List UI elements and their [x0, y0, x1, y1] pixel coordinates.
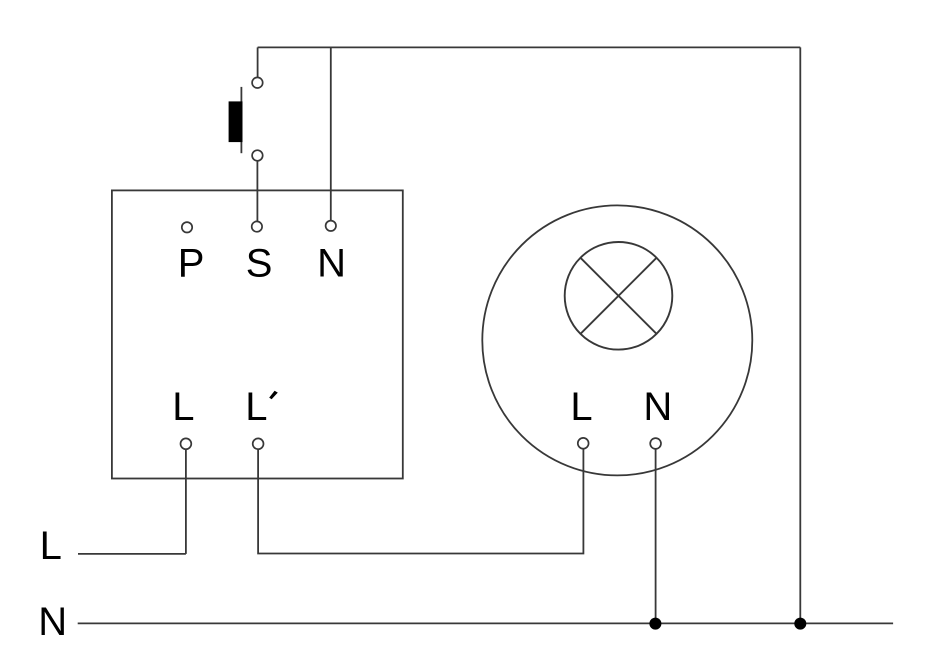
lamp symbol circle [565, 242, 673, 350]
svg-text:L: L [245, 385, 267, 429]
lamp terminal circles L and N [578, 438, 661, 449]
wire: lamp terminal N down to N rail [655, 449, 657, 624]
lamp symbol cross line 2 [581, 258, 657, 334]
wire: terminal L' of control unit to lamp terminal L [258, 449, 583, 554]
wire: top bus down to terminal N [330, 47, 332, 220]
svg-text:N: N [317, 242, 346, 286]
push-button S contact circles [252, 77, 263, 160]
svg-text:S: S [246, 242, 273, 286]
svg-text:L: L [40, 524, 62, 568]
svg-text:N: N [643, 385, 672, 429]
svg-text:L: L [570, 385, 592, 429]
wire: terminal L of control unit down to L rail [185, 449, 187, 554]
terminal circles P S N of control unit [182, 221, 336, 233]
wire: L supply rail [78, 553, 186, 555]
wire: N supply rail [78, 622, 893, 624]
terminal circles L and L' of control unit [181, 438, 264, 449]
wire: stub from top bus down to push-button upper contact [257, 47, 259, 77]
control unit box [112, 190, 403, 478]
svg-text:P: P [178, 242, 205, 286]
wire: push-button lower contact down to terminal S [256, 161, 258, 222]
junction dot: lamp N on N rail [649, 618, 661, 630]
push-button actuator cap (filled) [229, 101, 243, 142]
push-button actuator stem [240, 87, 242, 153]
lamp symbol cross line 1 [581, 258, 657, 334]
lamp outer circle [482, 205, 752, 475]
wire: right vertical drop to N rail [799, 47, 801, 623]
wire: top bus from push-button to right drop [258, 46, 801, 48]
svg-text:N: N [38, 600, 67, 644]
svg-text:L: L [172, 385, 194, 429]
prime mark of L' [269, 391, 278, 400]
junction dot: right drop on N rail [794, 618, 806, 630]
